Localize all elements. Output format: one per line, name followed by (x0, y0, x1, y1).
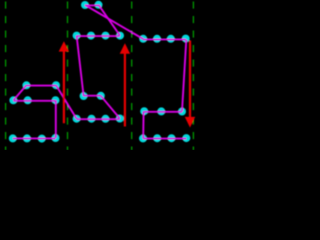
edge D2-F4 (101, 96, 120, 119)
edge U1-T1 (13, 85, 26, 100)
node A1 (81, 1, 89, 9)
node F3 (102, 115, 110, 123)
node F4 (116, 115, 124, 123)
node G4 (52, 134, 60, 142)
node C2 (153, 35, 161, 43)
node B1 (73, 32, 81, 40)
node H2 (153, 134, 161, 142)
edge A2-B4 (99, 5, 121, 36)
red arrow 3 (down) (185, 41, 195, 128)
green dashed timeline 4 (192, 0, 194, 150)
red arrow 2 (up) (120, 43, 130, 126)
edge A1-C1 (85, 5, 143, 39)
edge C4-R3 (182, 40, 186, 112)
edge T1-T2 (26, 85, 56, 87)
green dashed timeline 3 (131, 0, 133, 150)
node H3 (168, 134, 176, 142)
node H4 (182, 134, 190, 142)
edge chain R1-R2-R3 (144, 111, 182, 113)
node T1 (22, 81, 30, 89)
edge D1-D2 (84, 95, 101, 97)
node G2 (23, 134, 31, 142)
node B3 (102, 32, 110, 40)
node H1 (139, 134, 147, 142)
edge chain B1-B2-B3-B4 (77, 35, 120, 37)
node R2 (157, 107, 165, 115)
edge U3-G4 (55, 100, 57, 138)
node D1 (80, 92, 88, 100)
node F1 (73, 115, 81, 123)
node C3 (167, 35, 175, 43)
node U3 (52, 96, 60, 104)
node T2 (52, 81, 60, 89)
node R3 (178, 108, 186, 116)
node R1 (140, 107, 148, 115)
edge R1-H1 (142, 111, 144, 138)
edge T2-F1 (56, 85, 77, 119)
edge A1-A2 (85, 4, 99, 6)
edge chain H1-H2-H3-H4 (143, 138, 186, 140)
green dashed timeline 1 (5, 0, 7, 150)
node U1 (9, 96, 17, 104)
node D2 (97, 92, 105, 100)
edge chain F1-F2-F3-F4 (77, 118, 120, 120)
node B2 (87, 32, 95, 40)
edge chain U1-U2-U3 (13, 100, 55, 102)
node A2 (95, 1, 103, 9)
node C4 (182, 35, 190, 43)
red arrow 1 (up) (59, 41, 69, 123)
green dashed timeline 2 (67, 0, 69, 150)
edge B1-D1 (77, 36, 84, 96)
node F2 (88, 115, 96, 123)
edge chain C1-C2-C3-C4 (143, 38, 186, 40)
node G3 (38, 135, 46, 143)
node U2 (24, 96, 32, 104)
node B4 (116, 32, 124, 40)
node C1 (139, 35, 147, 43)
node G1 (9, 134, 17, 142)
edge chain G1-G2-G3-G4 (13, 137, 56, 139)
